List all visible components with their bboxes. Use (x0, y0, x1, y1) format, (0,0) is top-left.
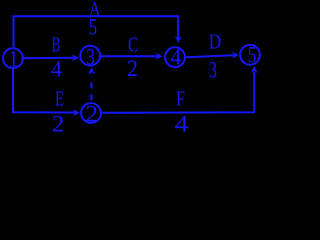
svg-text:2: 2 (52, 112, 65, 134)
arrowhead C into node4 (right) (156, 53, 163, 60)
wire A: node1 up, across top, down to node4 (14, 16, 179, 48)
svg-text:E: E (55, 86, 64, 110)
node 5 circle (240, 45, 260, 65)
dummy wire: dashed node2 to node3 (90, 76, 92, 100)
wire E: node1 down, across bottom, to node2 (13, 69, 75, 113)
svg-text:4: 4 (170, 45, 181, 70)
arrowhead F into node5 (up) (251, 66, 258, 73)
svg-text:D: D (209, 29, 221, 53)
arrowhead D into node5 (right) (232, 52, 239, 59)
svg-text:4: 4 (51, 56, 62, 81)
arrowhead A into node4 (down) (175, 36, 182, 43)
svg-text:3: 3 (209, 57, 217, 82)
wire C: node3 to node4 (101, 55, 157, 57)
arrowhead dummy into node3 (up) (88, 67, 95, 74)
svg-text:F: F (176, 86, 185, 110)
arrowhead B into node3 (right) (72, 54, 79, 61)
wire F: node2 across bottom, up to node5 (102, 72, 255, 113)
svg-text:2: 2 (85, 101, 98, 126)
svg-text:C: C (128, 32, 139, 56)
svg-text:3: 3 (86, 45, 95, 70)
node 4 circle (165, 47, 185, 67)
svg-text:1: 1 (8, 46, 19, 71)
wire D: node4 to node5 (186, 55, 234, 57)
arrowhead E into node2 (right) (73, 109, 80, 116)
svg-text:4: 4 (175, 111, 189, 134)
svg-text:5: 5 (248, 43, 257, 68)
svg-text:B: B (52, 32, 61, 56)
svg-text:5: 5 (89, 14, 97, 39)
node 3 circle (80, 46, 100, 66)
wire B: node1 to node3 (24, 57, 74, 59)
node 1 circle (3, 48, 23, 68)
node 2 circle (81, 103, 101, 123)
svg-text:2: 2 (127, 56, 138, 81)
